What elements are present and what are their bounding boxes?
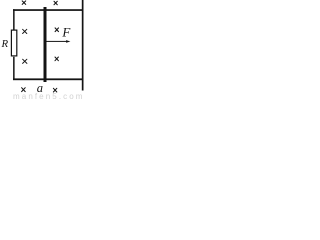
wire left upper lead: [13, 9, 15, 30]
resistor R1 box: [11, 30, 16, 56]
background: [0, 0, 85, 100]
field mark x row3 left: [23, 59, 27, 63]
svg-text:F: F: [61, 25, 71, 40]
field mark x row4 left: [22, 88, 26, 92]
svg-text:R: R: [1, 38, 9, 50]
field mark x row1 left: [22, 1, 26, 5]
field mark x row3 right: [55, 57, 58, 61]
wire right wall: [82, 0, 84, 91]
force arrow F head: [66, 40, 70, 43]
field mark x row2 left: [23, 29, 27, 33]
rod ab (slider): [44, 7, 47, 82]
wire top rail: [13, 9, 83, 11]
force arrow F line: [47, 41, 67, 42]
wire bottom rail: [13, 78, 83, 80]
field mark x row1 right: [54, 1, 57, 4]
field mark x row2 right: [55, 28, 58, 32]
wire left lower lead: [13, 57, 15, 80]
svg-text:manfen5.com: manfen5.com: [13, 92, 85, 100]
field mark x row4 right: [53, 88, 56, 92]
